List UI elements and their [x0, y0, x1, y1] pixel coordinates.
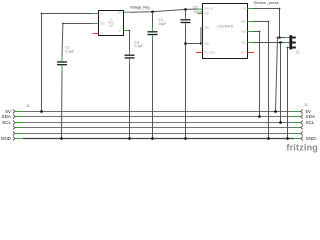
pin GND2 left	[201, 43, 203, 45]
wire header pin3 to GND bus	[288, 47, 290, 49]
svg-text:0.1µF: 0.1µF	[66, 49, 75, 53]
svg-text:Voltage_Reg: Voltage_Reg	[130, 6, 150, 10]
bus labels right	[306, 109, 317, 141]
svg-text:CS: CS	[243, 8, 247, 11]
wire SDO to GND bus	[254, 22, 269, 139]
bus line SDA	[15, 116, 301, 118]
SCL tap to bus	[279, 41, 282, 44]
svg-text:J3: J3	[304, 103, 308, 107]
wire C4 to GND bus	[152, 39, 154, 138]
bus labels left	[1, 109, 12, 141]
svg-text:NC_GND: NC_GND	[205, 52, 215, 55]
capacitor C1	[57, 46, 74, 71]
svg-text:SDA: SDA	[241, 31, 246, 34]
svg-text:BP: BP	[119, 31, 123, 33]
capacitor C6 branch	[184, 8, 187, 11]
svg-text:INT1: INT1	[241, 52, 247, 55]
pin NC left (unconnected)	[196, 52, 203, 54]
svg-text:VDD_IO: VDD_IO	[204, 8, 213, 11]
svg-text:GND: GND	[204, 27, 210, 30]
wire 5V to regulator IN	[42, 14, 93, 112]
svg-text:GND: GND	[204, 43, 210, 46]
wire header pin1 to 5V bus	[276, 38, 278, 112]
sensor inner labels	[204, 8, 215, 55]
bus line SCL	[15, 122, 301, 124]
bus line 5V	[15, 111, 301, 113]
pin CS right	[248, 8, 254, 10]
wire bendpoint dots	[41, 8, 289, 49]
svg-text:SDO: SDO	[241, 21, 246, 24]
svg-text:IN: IN	[100, 14, 103, 16]
pin SDO right	[248, 21, 254, 23]
pin GND	[93, 23, 99, 25]
svg-text:EN: EN	[100, 34, 104, 36]
svg-text:LPS25HTB: LPS25HTB	[217, 25, 233, 29]
pin GND1 left	[201, 27, 203, 29]
wire C1 to GND bus	[61, 70, 64, 138]
svg-text:SCL: SCL	[306, 120, 315, 125]
svg-text:VDD: VDD	[204, 12, 209, 15]
wire regulator OUT to sensor VDD	[130, 9, 197, 12]
svg-text:SDA: SDA	[306, 114, 316, 119]
pin INT right (unconnected)	[248, 52, 255, 54]
svg-text:Sensor_press: Sensor_press	[254, 0, 279, 5]
right chevrons	[301, 110, 303, 141]
wire CS to 5V net	[254, 9, 280, 38]
wire SDA to SDA bus	[254, 32, 260, 117]
pin VDD_IO left	[197, 8, 203, 10]
pin SCL right	[248, 42, 254, 44]
left chevrons	[13, 110, 15, 141]
svg-text:SCL: SCL	[241, 42, 246, 45]
wire regulator GND pin to C1	[63, 23, 93, 25]
svg-text:J2: J2	[26, 104, 30, 108]
svg-text:LDO: LDO	[108, 24, 113, 28]
regulator box	[99, 11, 124, 36]
bus line GND	[15, 138, 301, 140]
pin EN (unconnected)	[93, 33, 99, 35]
branch to sensor GND pins	[184, 42, 187, 45]
junction 5V/regIN	[40, 110, 43, 113]
svg-text:100nF: 100nF	[194, 10, 204, 14]
svg-text:GND: GND	[306, 136, 317, 141]
capacitor C4 branch	[151, 11, 154, 14]
svg-text:0.1µF: 0.1µF	[135, 44, 144, 48]
pin SDA right	[248, 31, 254, 33]
svg-text:J1: J1	[296, 51, 300, 55]
wire SCL to header pin 2	[254, 42, 285, 44]
pin OUT	[124, 11, 131, 13]
svg-text:SDA: SDA	[2, 114, 12, 119]
pin BP	[124, 30, 130, 32]
svg-text:10µF: 10µF	[159, 22, 167, 26]
bus line 4	[15, 127, 301, 129]
wire C3 to GND bus	[129, 62, 131, 138]
bus line 5	[15, 133, 301, 135]
svg-text:OUT: OUT	[118, 13, 123, 15]
regulator inner text	[108, 18, 114, 28]
svg-text:fritzing: fritzing	[286, 143, 318, 153]
pin IN	[93, 13, 99, 15]
svg-text:GND: GND	[100, 24, 105, 26]
junction C1/GND	[60, 137, 63, 140]
svg-text:SCL: SCL	[2, 120, 11, 125]
svg-text:GND: GND	[1, 136, 12, 141]
wire C6 down to GND bus	[185, 27, 187, 139]
